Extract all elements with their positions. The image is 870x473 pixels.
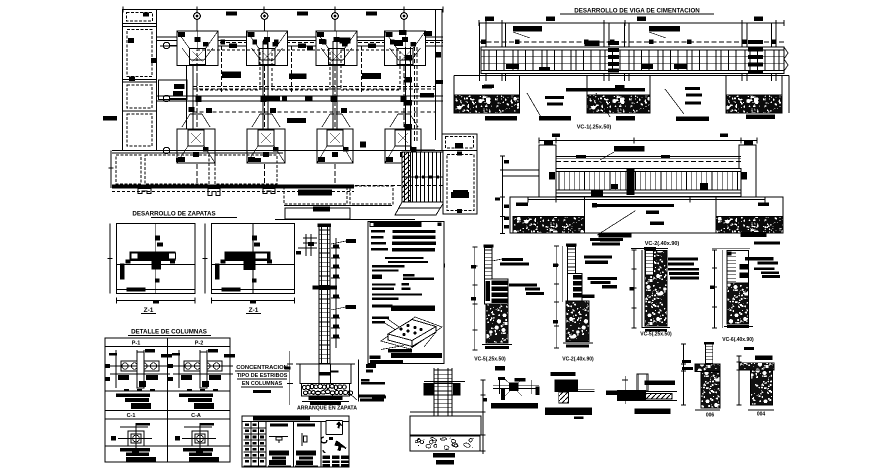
svg-text:TIPO DE ESTRIBOS: TIPO DE ESTRIBOS: [237, 373, 288, 379]
beam VC-1 leader lines: [527, 89, 684, 117]
notes text bars: [371, 230, 436, 311]
grid lines vertical: [197, 31, 404, 185]
svg-text:ARRANQUE EN ZAPATA: ARRANQUE EN ZAPATA: [297, 406, 357, 412]
svg-text:VC-1(.25x.50): VC-1(.25x.50): [577, 125, 612, 131]
beam VC-1 footing band: [454, 76, 789, 114]
section VC-5 A note bars: [492, 258, 544, 295]
left edge dim bar: [103, 116, 117, 121]
floor plan: top dimension line: [123, 7, 443, 16]
section VC-2 B dim lines: [553, 246, 562, 348]
heavy wall pair grid 4: [405, 47, 418, 150]
beam VC-2 base pads: [599, 232, 767, 242]
section VC-5 A dim line: [471, 247, 477, 350]
column P-1 section: [105, 349, 172, 392]
beam VC-1 top label bars: [513, 26, 680, 38]
section VC-2 B splice stack: [568, 274, 583, 302]
footing detail slab: [410, 412, 481, 435]
svg-text:EN COLUMNAS: EN COLUMNAS: [242, 381, 283, 387]
stair treads: [402, 152, 444, 202]
section VC-5 A base: [482, 345, 512, 350]
notes panel frame: [368, 222, 444, 364]
beam VC-2 end columns: [539, 141, 756, 198]
beam VC-2 body with stirrups: [556, 169, 741, 197]
room label blobs: [222, 44, 381, 80]
central column vertical rebar ladder: [318, 224, 332, 384]
section VC-6 D base: [724, 325, 753, 328]
section VC-5 C dim lines: [630, 249, 669, 329]
note CONCENTRACION DE ESTRIBOS: [235, 365, 289, 393]
column table frame: [105, 338, 230, 462]
label Z-1 right: [246, 307, 261, 314]
section VC-5 A speckle block: [486, 304, 508, 343]
plan outer walls: [157, 10, 443, 151]
section 004 cap: [739, 355, 774, 370]
section VC-6 D dim lines: [710, 249, 750, 328]
section VC-5 A ladder: [484, 245, 494, 280]
svg-text:CONCENTRACION: CONCENTRACION: [236, 365, 288, 371]
row D grid bubble: [163, 147, 186, 153]
C row note bars: [120, 448, 219, 462]
footing Z-1 grid2 top: [247, 31, 288, 66]
section 006 column: [704, 342, 714, 364]
beam VC-2 left dim column: [495, 156, 539, 234]
row C grid bubble: [163, 95, 186, 101]
legend right panel with arrows: [321, 421, 349, 467]
footing Z-1 grid3 bottom: [317, 129, 353, 163]
svg-text:P-2: P-2: [195, 341, 204, 347]
beam VC-2 footing annotation bars: [516, 203, 769, 236]
beam VC-1 break symbol: [784, 47, 788, 71]
footing rubble stones: [302, 359, 387, 401]
classroom partition walls: [222, 41, 362, 129]
column dim ticks left: [296, 234, 317, 256]
footing Z-1 grid4 bottom: [385, 129, 421, 163]
svg-text:004: 004: [757, 412, 766, 418]
lower-left service room: [159, 80, 188, 100]
footing Z-1 grid1 top: [177, 31, 218, 66]
legend table frame: [242, 416, 349, 467]
section 004 dims: [736, 347, 774, 410]
beam VC-2 dimension line: [539, 134, 757, 161]
section 006 body: [701, 371, 720, 408]
svg-text:P-1: P-1: [132, 341, 141, 347]
zapata plan Z-1 right: [203, 224, 295, 304]
left stair strip walls: [123, 10, 157, 151]
column footing pedestal: [285, 351, 377, 405]
column C-1 section: [111, 423, 152, 454]
legend mini grid: [244, 422, 267, 467]
extra plan label blobs: [265, 30, 434, 148]
section VC-2 B note bars: [582, 238, 623, 298]
footing Z-1 grid1 bottom: [177, 129, 215, 163]
section 006 dims: [681, 344, 720, 410]
column stirrup spacing marks right: [331, 238, 340, 348]
P row note bars: [116, 394, 214, 410]
section VC-5 C body speckle: [644, 247, 667, 326]
footing detail base bars: [433, 453, 455, 465]
beam VC-1 column verticals: [480, 23, 777, 81]
detail D4: [606, 374, 677, 414]
svg-text:VC-2(.40x.90): VC-2(.40x.90): [645, 241, 680, 247]
footing detail right dim line: [481, 366, 506, 454]
svg-text:VC-5(.25x.50): VC-5(.25x.50): [640, 332, 672, 338]
beam VC-2 top slab lines: [556, 155, 741, 162]
footing Z-1 grid2 bottom: [247, 129, 285, 163]
section VC-2 B ladder: [566, 244, 577, 274]
leader to stirrup label: [331, 239, 356, 244]
splayed door openings above bottom footings: [182, 114, 418, 127]
detail D3: [545, 372, 595, 419]
column C-A section: [175, 423, 216, 454]
grid bubbles top row: [194, 13, 408, 31]
rebar marks on row B line: [221, 40, 395, 45]
footing Z-1 grid4 top: [385, 31, 426, 66]
beam VC-2 hatched blocks: [513, 217, 783, 234]
right side rooms: [442, 134, 477, 214]
svg-text:VC-6(.40x.90): VC-6(.40x.90): [722, 337, 754, 343]
beam VC-2 footing slab: [510, 197, 783, 234]
footing detail column ladder: [434, 368, 452, 434]
section VC-5 A splice stack: [485, 279, 509, 304]
ramp below stair: [395, 202, 444, 215]
svg-text:DESARROLLO DE VIGA DE CIMENTAC: DESARROLLO DE VIGA DE CIMENTACION: [574, 8, 700, 15]
label Z-1 left: [141, 307, 156, 314]
svg-text:VC-2(.40x.90): VC-2(.40x.90): [562, 357, 594, 363]
bottom rooms band left: [109, 151, 444, 196]
section VC-6 D speckle block: [727, 283, 749, 324]
section VC-5 C base: [642, 328, 670, 332]
svg-text:DESARROLLO DE ZAPATAS: DESARROLLO DE ZAPATAS: [132, 211, 215, 218]
svg-text:Z-1: Z-1: [144, 307, 154, 314]
footing Z-1 grid3 top: [316, 31, 357, 66]
beam VC-1 body with stirrups: [481, 47, 784, 74]
classroom inner dashed outlines: [193, 50, 435, 150]
section 006 cap speckle: [695, 364, 720, 371]
column P-2 section: [168, 349, 235, 392]
beam VC-1 right bar stack: [748, 40, 763, 74]
section VC-2 B speckle block: [566, 301, 589, 342]
svg-text:DETALLE DE COLUMNAS: DETALLE DE COLUMNAS: [131, 329, 207, 336]
svg-text:C-A: C-A: [191, 413, 201, 419]
grid crossing blobs lower row: [188, 97, 406, 114]
legend middle panels: [266, 422, 321, 468]
beam VC-1 hatched footing blocks: [454, 95, 782, 113]
svg-text:C-1: C-1: [127, 413, 136, 419]
section 004 body: [751, 370, 773, 405]
stirrup label 2: [331, 305, 356, 310]
beam VC-1 rebar splice marks: [481, 40, 776, 89]
section VC-2 B base: [563, 343, 593, 348]
svg-text:006: 006: [706, 413, 715, 419]
beam VC-1 footing annotation bars: [482, 85, 702, 106]
floor slab band: [313, 286, 338, 290]
tick mark near section A top: [441, 264, 445, 268]
right black bar annotations plan: [424, 31, 469, 198]
svg-text:VC-5(.25x.50): VC-5(.25x.50): [474, 357, 506, 363]
band walls redrawn over footings: [112, 151, 443, 154]
section VC-5 C note bars: [668, 257, 699, 279]
svg-text:Z-1: Z-1: [249, 307, 259, 314]
zapata plan Z-1 left: [108, 224, 196, 304]
footing detail subbase speckle: [410, 436, 480, 451]
beam VC-1 dashed top line: [479, 41, 784, 43]
beam VC-1 dimension line: [479, 17, 784, 27]
detail joint D2: [491, 378, 539, 409]
splayed door openings below top footings: [182, 48, 421, 60]
footing detail pedestal: [424, 382, 465, 396]
section VC-6 D note bars: [745, 241, 780, 278]
section VC-6 D ladder: [727, 251, 749, 284]
footing base bars: [302, 395, 385, 406]
beam VC-1 base pads: [485, 115, 775, 122]
isometric slab sketch: [370, 317, 443, 364]
lower extension rooms: [275, 186, 443, 220]
row B grid bubble: [163, 42, 186, 48]
